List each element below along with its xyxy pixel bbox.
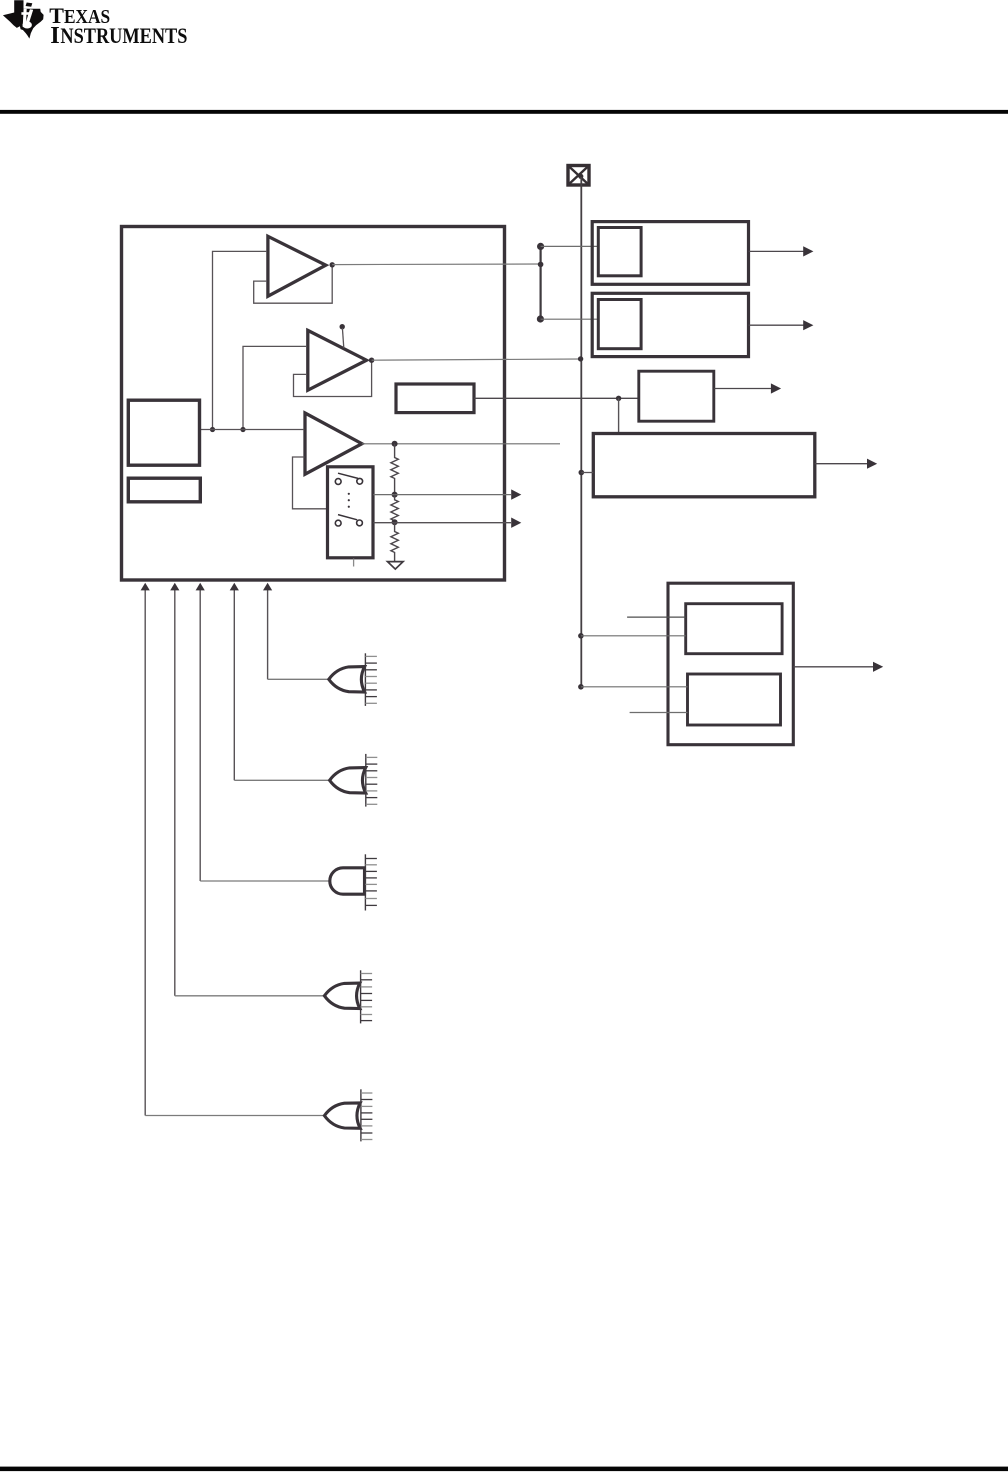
output block B1 (outer) bbox=[592, 222, 748, 285]
wire: to gate G2 bbox=[234, 779, 329, 781]
output block B2 (inner) bbox=[598, 300, 641, 349]
wire: input to A1 bbox=[213, 251, 268, 429]
pin terminal X1 (crossed square) bbox=[568, 166, 589, 186]
gate G4 (8-input OR, facing left) bbox=[324, 970, 372, 1023]
node: A1 input junction dot bbox=[210, 427, 215, 432]
wire: to gate G4 bbox=[175, 995, 325, 997]
wire: A1 output to bus stub bbox=[332, 263, 540, 266]
block B5 (outer, lower right) bbox=[668, 583, 793, 745]
op-amp A2 (middle buffer) bbox=[308, 330, 367, 390]
input arrow 4 into main block bbox=[230, 583, 239, 781]
wire: bias box to A3 input bbox=[200, 429, 305, 431]
switch lever top bbox=[338, 473, 358, 478]
node: stub top dot bbox=[537, 243, 544, 250]
switch contact top-left bbox=[335, 479, 341, 485]
input arrow 3 into main block bbox=[196, 583, 205, 881]
switch contact top-right bbox=[357, 478, 363, 484]
arrow: B3 output bbox=[714, 383, 781, 393]
gate G3 (8-input AND, facing left) bbox=[330, 854, 377, 910]
wire: stub to block B2 bbox=[541, 318, 599, 320]
wire: tap 2 from S1 to arrow bbox=[373, 522, 511, 524]
node: stub bottom dot bbox=[537, 315, 544, 322]
arrow: tap 1 output bbox=[511, 489, 521, 499]
TI logo icon bbox=[3, 0, 44, 38]
wire: floating stub into B5 inner bottom bbox=[630, 712, 688, 714]
input arrow 1 into main block bbox=[141, 583, 150, 1116]
block B5 (inner top) bbox=[686, 604, 782, 654]
wire: A2 feedback loop bbox=[294, 360, 372, 396]
wire: A2 output to bus bbox=[372, 359, 581, 360]
wire: A3 feedback to switch box bbox=[293, 457, 328, 509]
ground symbol bbox=[388, 562, 404, 570]
arrow: B4 output bbox=[815, 459, 877, 469]
output block B2 (outer) bbox=[592, 293, 748, 356]
node: A1 output dot bbox=[330, 262, 335, 267]
wire: A3 output bbox=[362, 443, 560, 445]
wire: to gate G1 bbox=[268, 678, 329, 680]
resistor R1 bbox=[391, 444, 398, 495]
input arrow 5 into main block bbox=[263, 583, 272, 680]
ellipsis dots inside S1 bbox=[348, 493, 350, 495]
wire: A1 feedback loop bbox=[254, 265, 333, 303]
main block U1 (box) bbox=[122, 227, 505, 581]
gate G2 (8-input OR, facing left) bbox=[330, 754, 378, 807]
node: bus dot to B4 bbox=[579, 470, 585, 476]
node: bus dot to B5 upper bbox=[578, 633, 584, 639]
arrow: B1 output bbox=[749, 246, 814, 256]
svg-text:INSTRUMENTS: INSTRUMENTS bbox=[50, 22, 187, 49]
block U3 (small rectangle) bbox=[128, 478, 200, 502]
wire: U4 output across bus to node bbox=[474, 397, 639, 399]
bias block U2 (square box) bbox=[128, 400, 199, 465]
node: dot above A2 with stub bbox=[340, 324, 345, 329]
resistor R2 bbox=[391, 495, 398, 523]
node: tap dot 2 bbox=[392, 519, 398, 525]
switch contact bottom-right bbox=[357, 520, 363, 526]
switch block S1 (volume selector box) bbox=[328, 467, 374, 558]
resistor R3 bbox=[391, 522, 398, 562]
node: A2 output dot bbox=[369, 358, 374, 363]
wire: vertical bus from pin X1 down bbox=[580, 177, 582, 687]
wire: bus to B5 inner top bbox=[581, 635, 686, 637]
output block B1 (inner) bbox=[598, 228, 641, 276]
block B4 (wide) bbox=[593, 434, 815, 497]
wire: bus to B5 inner bottom bbox=[581, 686, 688, 688]
arrow: B2 output bbox=[749, 320, 814, 330]
gate G1 (8-input OR, facing left) bbox=[329, 653, 377, 706]
header rule bbox=[0, 110, 1008, 114]
gate G5 (8-input OR, facing left) bbox=[324, 1089, 372, 1141]
wire: tap 1 from S1 to arrow bbox=[373, 494, 511, 496]
op-amp A3 (lower buffer) bbox=[305, 413, 362, 474]
block B5 (inner bottom) bbox=[688, 674, 781, 725]
input arrow 2 into main block bbox=[170, 583, 179, 996]
wire: drop from node into wide block bbox=[618, 398, 620, 433]
wire: bus to B4 bbox=[581, 472, 593, 474]
node: bus dot to B5 lower bbox=[578, 684, 584, 690]
node: tap dot 1 bbox=[392, 492, 398, 498]
wire: to gate G5 bbox=[145, 1115, 325, 1117]
arrow: tap 2 output bbox=[511, 518, 521, 528]
block B3 (small) bbox=[639, 371, 714, 421]
wire: stub from dot into A2 bbox=[342, 328, 343, 348]
wire: floating stub into B5 inner top bbox=[627, 616, 686, 618]
TI wordmark TEXAS bbox=[49, 3, 187, 49]
wire: stub below S1 bbox=[353, 559, 355, 567]
wire: stub to block B1 bbox=[541, 245, 599, 247]
wire: stub bus segment left of output blocks bbox=[539, 246, 541, 319]
op-amp A1 (top buffer) bbox=[268, 236, 326, 296]
switch lever bottom bbox=[338, 515, 357, 520]
node: A2 input junction dot bbox=[240, 427, 245, 432]
node: A2 output joins bus bbox=[578, 356, 583, 361]
reference block U4 (rect inside main box) bbox=[396, 384, 474, 413]
node: junction dot on U4 output bbox=[616, 396, 621, 401]
node: A3 output tap dot bbox=[392, 441, 398, 447]
node: stub mid dot (A1 output) bbox=[538, 262, 544, 268]
arrow: B5 output bbox=[793, 662, 883, 672]
wire: to gate G3 bbox=[200, 880, 330, 882]
switch contact bottom-left bbox=[335, 520, 341, 526]
wire: input to A2 bbox=[243, 346, 307, 429]
footer rule bbox=[0, 1467, 1008, 1472]
